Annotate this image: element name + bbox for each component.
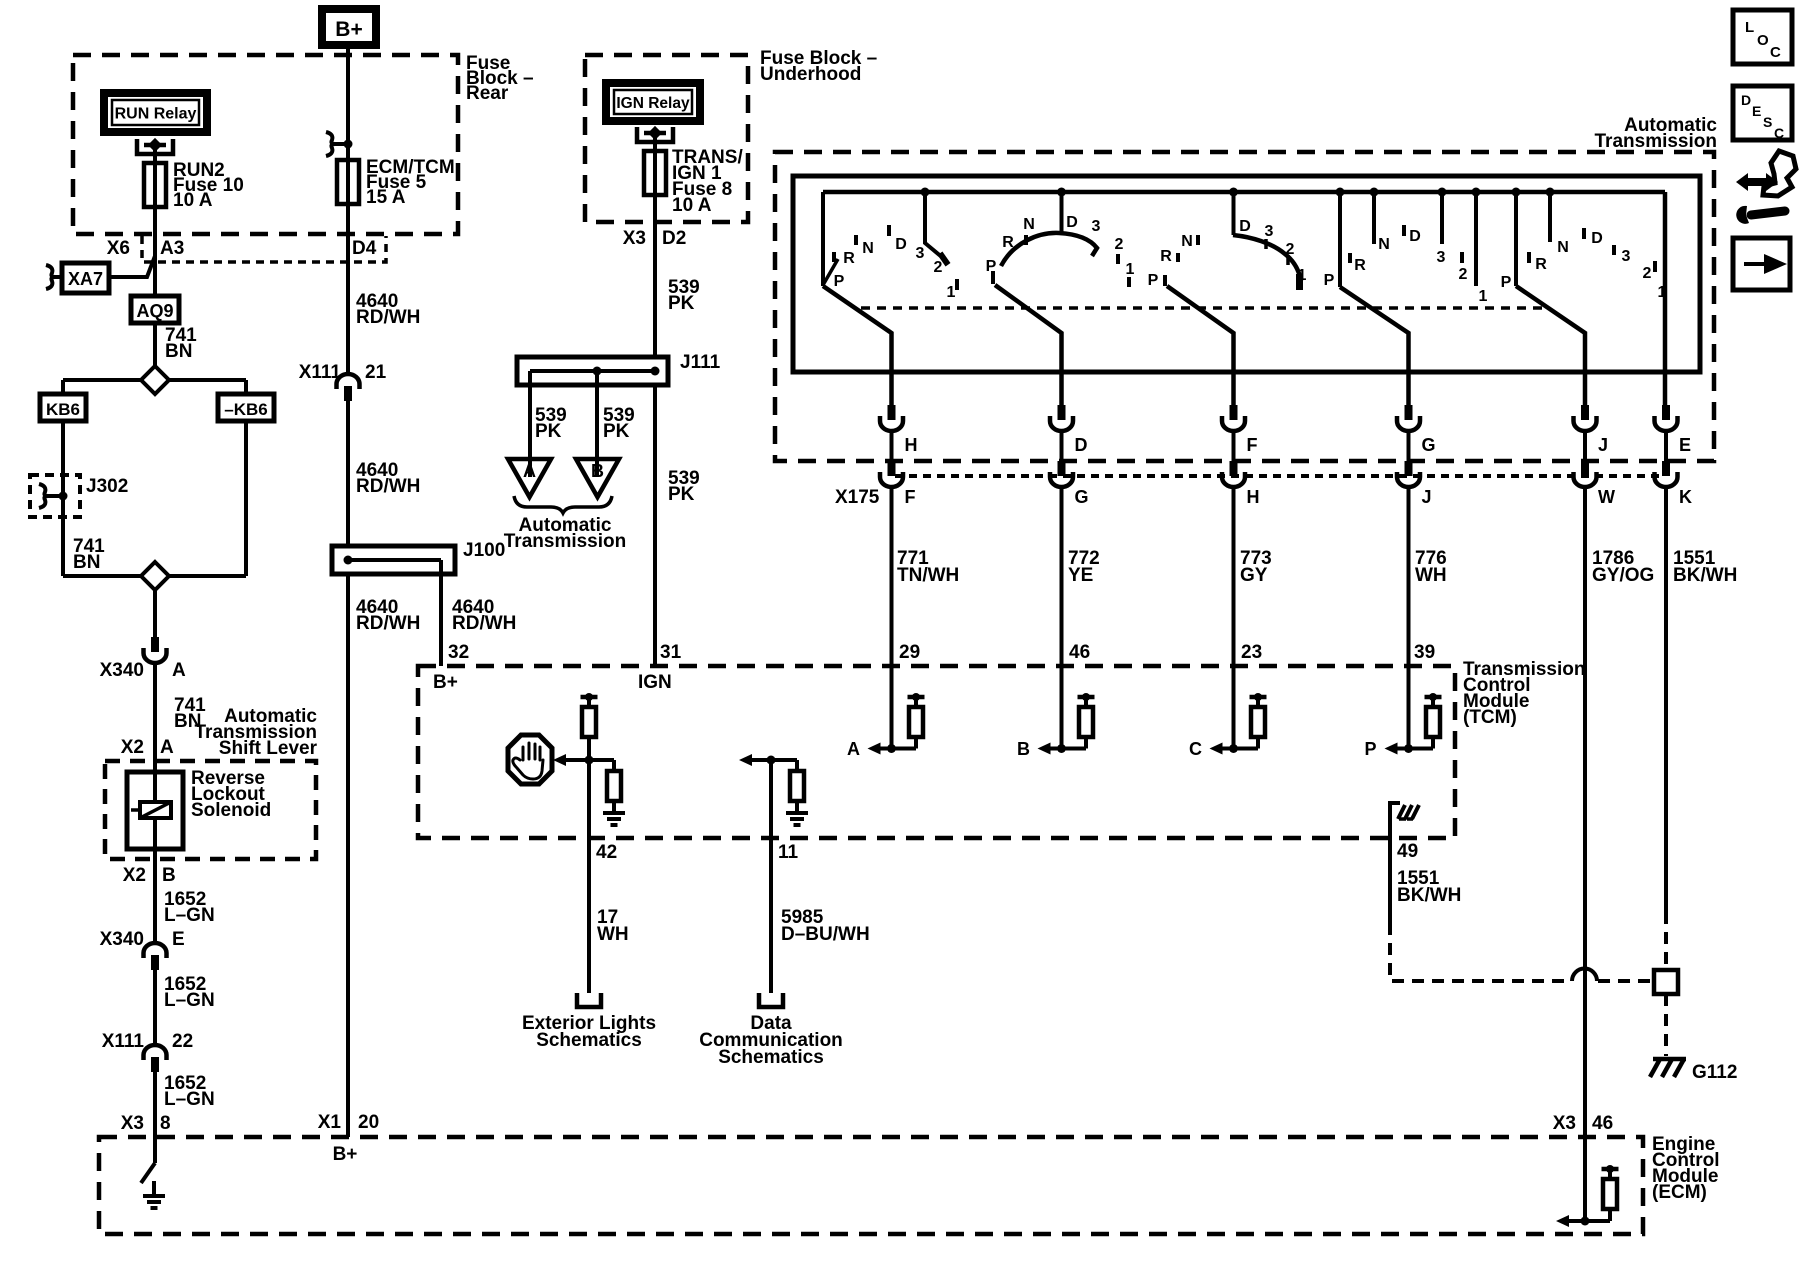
wire IGN relay to fuse — [653, 133, 657, 151]
svg-text:X111: X111 — [102, 1031, 145, 1052]
connector row X6 A3 D4 dashed box — [142, 236, 386, 262]
fuse ECM/TCM Fuse 5 15A — [337, 160, 359, 204]
label wire 4640 RD/WH second — [356, 460, 420, 497]
label X340 E — [100, 929, 185, 950]
svg-text:Shift Lever: Shift Lever — [219, 738, 318, 759]
inline connector clip XA7 — [46, 265, 55, 289]
svg-text:W: W — [1598, 487, 1615, 507]
inline connector square on 1551 — [1654, 970, 1678, 994]
resistor in TCM pin 42 — [582, 707, 596, 760]
svg-text:G112: G112 — [1692, 1062, 1737, 1083]
J100 internal bus — [344, 556, 442, 565]
svg-text:J: J — [1422, 487, 1432, 507]
switch group 2 position letters P R N D 3 2 1 — [986, 214, 1135, 287]
connector X175 pin G — [1050, 461, 1089, 507]
hidden wire 1551 from connector K — [1664, 912, 1668, 970]
svg-text:Underhood: Underhood — [760, 64, 861, 85]
inline clip J302 — [39, 484, 48, 508]
label Transmission Control Module TCM — [1463, 659, 1586, 728]
hidden wire 1551 to ground path — [1390, 923, 1654, 981]
label G112 — [1692, 1062, 1737, 1083]
svg-text:X6: X6 — [107, 238, 130, 259]
label X2 upper — [121, 737, 144, 758]
svg-text:32: 32 — [448, 642, 469, 663]
switch group 1 position letters P R N D 3 2 1 — [834, 225, 957, 301]
svg-text:3: 3 — [1437, 249, 1446, 266]
svg-text:H: H — [905, 435, 918, 455]
svg-text:X340: X340 — [100, 660, 144, 681]
switch group 2 wiper, feed and R-3 arc — [993, 188, 1097, 406]
wire KB6 down — [61, 421, 65, 576]
arrow data comm — [739, 754, 771, 766]
svg-text:3: 3 — [1265, 223, 1274, 240]
wire J100 branch to TCM pin 32 — [439, 560, 443, 666]
ECM internal switch to ground — [141, 1137, 165, 1208]
label X6 — [107, 238, 130, 259]
switch group 5 position letters P R N D 3 2 1 — [1501, 228, 1667, 301]
wire 1786 GY/OG — [1585, 489, 1654, 1137]
wire splice to KB6 branches — [63, 380, 246, 394]
svg-text:IGN Relay: IGN Relay — [616, 95, 690, 112]
svg-text:22: 22 — [172, 1031, 193, 1052]
label wire 1652 L-GN third — [164, 1073, 215, 1110]
svg-text:C: C — [1770, 44, 1781, 61]
brace under triangles — [514, 496, 612, 513]
svg-text:A: A — [523, 461, 536, 481]
connector X111 22 half-circle — [144, 1045, 167, 1072]
connector X340 E half-circle — [144, 943, 167, 970]
off-page triangle A — [508, 459, 551, 497]
svg-text:D2: D2 — [662, 228, 686, 249]
label X3 D2 — [623, 228, 687, 249]
connector X175 pin W — [1574, 461, 1616, 507]
off-page triangle B — [576, 459, 619, 497]
wire J111 branch B — [595, 371, 599, 477]
stop-hand octagon icon — [508, 735, 552, 784]
label Engine Control Module ECM — [1652, 1134, 1720, 1203]
wire splice to X340 A — [153, 590, 157, 638]
svg-text:F: F — [905, 487, 916, 507]
legend icon double-arrow with outline and wrench — [1736, 151, 1796, 224]
svg-text:Transmission: Transmission — [504, 531, 627, 552]
svg-text:XA7: XA7 — [68, 269, 103, 289]
svg-text:N: N — [1181, 233, 1193, 250]
transmission connector pin E — [1655, 405, 1692, 461]
ECM pullup bar pin 46 — [1602, 1165, 1619, 1179]
svg-text:1: 1 — [1126, 261, 1135, 278]
reverse lockout solenoid outer box — [127, 772, 183, 849]
wire J111 branch A — [528, 371, 532, 477]
resistor to ground in TCM 11 — [771, 760, 808, 825]
fuse block underhood dashed box — [585, 55, 748, 222]
svg-text:Transmission: Transmission — [1595, 131, 1718, 152]
label J100 — [463, 540, 505, 561]
svg-text:Schematics: Schematics — [718, 1047, 824, 1068]
svg-text:P: P — [986, 258, 997, 275]
ECM junction and arrow pin 46 — [1556, 1137, 1610, 1227]
svg-text:RD/WH: RD/WH — [356, 476, 420, 497]
arrow to stop-hand — [553, 754, 589, 766]
label pin 46 — [1069, 642, 1090, 663]
label Fuse Block - Rear — [466, 53, 534, 104]
wire through solenoid — [153, 772, 157, 849]
shift lever dashed box — [105, 761, 316, 859]
connector X175 pin H — [1222, 461, 1260, 507]
svg-text:J302: J302 — [86, 476, 128, 497]
svg-text:29: 29 — [899, 642, 920, 663]
svg-text:X340: X340 — [100, 929, 144, 950]
label pin 29 — [899, 642, 920, 663]
svg-text:42: 42 — [596, 842, 617, 863]
label wire 17 WH — [597, 907, 629, 945]
ECM resistor pin 46 — [1603, 1179, 1617, 1221]
transmission inner solid box — [793, 176, 1700, 372]
svg-text:D: D — [1591, 230, 1603, 247]
svg-text:KB6: KB6 — [46, 400, 80, 419]
label pin 49 — [1397, 841, 1418, 862]
svg-text:46: 46 — [1069, 642, 1090, 663]
legend box LOC — [1733, 10, 1792, 64]
relay IGN Relay box — [606, 83, 700, 121]
label J111 — [680, 352, 721, 373]
svg-text:BK/WH: BK/WH — [1673, 565, 1737, 586]
svg-text:8: 8 — [160, 1113, 171, 1134]
svg-text:PK: PK — [603, 421, 630, 442]
svg-text:2: 2 — [1115, 236, 1124, 253]
connector X111 21 half-circle — [337, 374, 360, 401]
legend box right-arrow — [1733, 238, 1790, 290]
svg-text:1: 1 — [1298, 267, 1307, 284]
automatic transmission dashed box — [775, 152, 1714, 461]
svg-text:P: P — [1324, 272, 1335, 289]
label Automatic Transmission Shift Lever — [195, 706, 318, 759]
switch group 3 position letters P R N D 3 2 1 — [1148, 218, 1307, 289]
J111 internal bus — [530, 367, 660, 376]
svg-text:R: R — [1002, 234, 1014, 251]
wire 776 WH — [1409, 489, 1447, 666]
svg-text:E: E — [172, 929, 185, 950]
svg-text:20: 20 — [358, 1112, 379, 1133]
splice diamond lower — [141, 562, 169, 590]
svg-text:Rear: Rear — [466, 83, 509, 104]
svg-text:R: R — [1535, 256, 1547, 273]
svg-text:R: R — [1160, 248, 1172, 265]
label pin 31 — [660, 642, 682, 663]
svg-text:(TCM): (TCM) — [1463, 707, 1517, 728]
svg-text:H: H — [1247, 487, 1260, 507]
fuse RUN2 Fuse 10 10A — [144, 163, 166, 207]
svg-text:G: G — [1075, 487, 1089, 507]
switch group 3 wiper, feed and D-1 arc — [1167, 188, 1303, 406]
svg-text:S: S — [1763, 114, 1772, 130]
svg-text:D: D — [1066, 214, 1078, 231]
svg-text:E: E — [1752, 103, 1761, 119]
svg-text:D: D — [1239, 218, 1251, 235]
transmission connector pin F — [1222, 405, 1258, 461]
svg-text:B: B — [591, 461, 604, 481]
svg-text:49: 49 — [1397, 841, 1418, 862]
wire TCM pin 11 down — [769, 760, 773, 993]
switch detent dotted line — [861, 306, 1544, 310]
svg-text:D: D — [1075, 435, 1088, 455]
label B+ at TCM — [433, 672, 458, 693]
switch group 4 position letters P R N D 3 2 1 — [1324, 225, 1488, 305]
label X111 22 — [102, 1031, 193, 1052]
svg-text:X2: X2 — [123, 865, 146, 886]
connector X175 dotted harness line — [895, 474, 1660, 478]
svg-text:D: D — [1741, 92, 1751, 108]
svg-text:X175: X175 — [835, 487, 880, 508]
svg-text:–KB6: –KB6 — [224, 400, 267, 419]
svg-text:AQ9: AQ9 — [136, 301, 173, 321]
ground G112 symbol — [1650, 1059, 1686, 1077]
svg-text:P: P — [1364, 739, 1376, 759]
svg-text:YE: YE — [1068, 565, 1093, 586]
svg-text:2: 2 — [1459, 266, 1468, 283]
splice diamond upper — [141, 366, 169, 394]
svg-text:21: 21 — [365, 362, 387, 383]
svg-text:L–GN: L–GN — [164, 905, 215, 926]
svg-text:A: A — [160, 737, 174, 758]
label wire 5985 D-BU/WH — [781, 907, 870, 945]
label ECM/TCM Fuse 5 15 A — [366, 157, 455, 208]
label pin B — [162, 865, 176, 886]
label X2 lower — [123, 865, 146, 886]
label wire 4640 RD/WH branch — [452, 597, 516, 634]
svg-text:J111: J111 — [680, 352, 721, 373]
wire solenoid to X2 B — [153, 849, 157, 880]
svg-text:31: 31 — [660, 642, 682, 663]
svg-text:RD/WH: RD/WH — [452, 613, 516, 634]
label pin 39 — [1414, 642, 1435, 663]
svg-text:2: 2 — [1643, 265, 1652, 282]
connector X175 pin F — [880, 461, 916, 507]
label wire 741 BN left — [73, 536, 105, 573]
off-page bracket exterior lights — [577, 993, 601, 1007]
wire X111 22 to ECM — [153, 1072, 157, 1137]
label Reverse Lockout Solenoid — [191, 768, 271, 821]
svg-text:A: A — [172, 660, 186, 681]
label Automatic Transmission destination — [504, 515, 627, 552]
TCM dashed box — [418, 666, 1455, 838]
switch group 4 wiper and feeds — [1336, 188, 1481, 406]
label IGN at TCM — [638, 672, 672, 693]
svg-text:X3: X3 — [1553, 1113, 1576, 1134]
svg-text:PK: PK — [668, 484, 695, 505]
label J302 — [86, 476, 128, 497]
ECM dashed box — [99, 1137, 1643, 1234]
svg-text:D4: D4 — [352, 238, 377, 259]
svg-text:Solenoid: Solenoid — [191, 800, 271, 821]
transmission connector pin G — [1397, 405, 1436, 461]
svg-text:J100: J100 — [463, 540, 505, 561]
svg-text:BK/WH: BK/WH — [1397, 885, 1461, 906]
svg-text:A3: A3 — [160, 238, 184, 259]
off-page bracket data comm — [759, 993, 783, 1007]
svg-text:X2: X2 — [121, 737, 144, 758]
svg-text:N: N — [1557, 239, 1569, 256]
connector X175 pin J — [1397, 461, 1432, 507]
TCM ground hook pin 49 — [1390, 803, 1419, 838]
label pin 11 — [778, 842, 799, 863]
wire TCM pin 49 down — [1388, 838, 1392, 923]
splice J302 dashed box — [30, 475, 80, 517]
svg-text:N: N — [1023, 216, 1035, 233]
label RUN2 Fuse 10 10 A — [173, 160, 244, 211]
connector X175 pin K — [1655, 461, 1693, 507]
label X175 — [835, 487, 880, 508]
label A3 — [160, 238, 184, 259]
svg-text:X1: X1 — [318, 1112, 342, 1133]
wire X340A to shift lever — [153, 665, 157, 772]
wire 773 GY — [1234, 489, 1272, 666]
svg-text:P: P — [1501, 274, 1512, 291]
power feed B+ box — [322, 9, 376, 45]
svg-text:D–BU/WH: D–BU/WH — [781, 924, 870, 945]
label Exterior Lights Schematics — [522, 1013, 656, 1051]
label wire 1652 L-GN second — [164, 974, 215, 1011]
label pin 32 — [448, 642, 469, 663]
legend box DESC — [1733, 86, 1792, 141]
svg-text:3: 3 — [916, 245, 925, 262]
label Fuse Block - Underhood — [760, 48, 877, 85]
label X111 21 — [299, 362, 387, 383]
wire AQ9 to splice — [153, 323, 157, 366]
connector X340 A half-circle — [144, 637, 167, 663]
connector AQ9 box — [131, 296, 179, 323]
hidden wire square to G112 — [1664, 994, 1668, 1056]
wire fuse8 down to J111 — [653, 195, 657, 357]
resistor to ground in TCM 42 — [589, 760, 625, 825]
label wire 4640 RD/WH first — [356, 291, 420, 328]
label wire 741 BN upper — [165, 325, 197, 362]
label X3 46 — [1553, 1113, 1613, 1134]
svg-text:1: 1 — [947, 284, 956, 301]
solenoid coil symbol — [131, 802, 171, 818]
inline clip at ECM/TCM fuse — [326, 132, 353, 156]
label wire 1652 L-GN first — [164, 889, 215, 926]
svg-text:D: D — [895, 236, 907, 253]
TCM input C with pull-up resistor — [1189, 666, 1267, 759]
svg-text:E: E — [1679, 435, 1691, 455]
svg-text:R: R — [1354, 257, 1366, 274]
TCM pullup bar for pin 42 — [581, 693, 598, 707]
wire RUN relay to fuse RUN2 — [153, 145, 157, 163]
label D4 — [352, 238, 377, 259]
option box KB6 — [40, 394, 86, 421]
svg-text:2: 2 — [1286, 241, 1295, 258]
svg-text:Schematics: Schematics — [536, 1030, 642, 1051]
svg-text:3: 3 — [1092, 218, 1101, 235]
switch group 5 wiper and feeds — [1512, 188, 1586, 406]
svg-text:C: C — [1774, 125, 1784, 141]
svg-text:IGN: IGN — [638, 672, 672, 693]
wire X111 21 to J100 — [346, 401, 350, 546]
svg-text:X3: X3 — [623, 228, 646, 249]
switch common bus — [823, 190, 1665, 195]
transmission connector pin H — [880, 405, 918, 461]
svg-text:PK: PK — [535, 421, 562, 442]
wire B+ box down — [346, 45, 350, 160]
wire J302 clip to wire — [48, 492, 68, 501]
wire TCM pin 42 down — [587, 760, 591, 993]
label pin 23 — [1241, 642, 1262, 663]
label X1 20 — [318, 1112, 379, 1133]
wire 772 YE — [1062, 489, 1100, 666]
label wire 539 PK lower — [668, 468, 700, 505]
label pin A — [172, 660, 186, 681]
svg-text:TN/WH: TN/WH — [897, 565, 959, 586]
svg-text:R: R — [843, 250, 855, 267]
wire -KB6 down — [244, 421, 248, 576]
IGN relay contact bracket — [637, 126, 673, 142]
svg-text:C: C — [1189, 739, 1202, 759]
splice pack J111 box — [517, 357, 668, 385]
svg-text:O: O — [1757, 32, 1769, 49]
svg-text:3: 3 — [1622, 248, 1631, 265]
svg-text:1: 1 — [1479, 288, 1488, 305]
wire 771 TN/WH — [892, 489, 960, 666]
TCM input B with pull-up resistor — [1017, 666, 1095, 759]
wire XA7 to main wire — [109, 256, 155, 277]
svg-text:GY/OG: GY/OG — [1592, 565, 1654, 586]
wire X340E to X111 22 — [153, 970, 157, 1043]
label wire 741 BN lower — [174, 695, 206, 732]
svg-text:WH: WH — [597, 924, 629, 945]
wire 1551 BK/WH upper — [1666, 489, 1737, 912]
label TRANS/IGN 1 Fuse 8 10 A — [672, 147, 743, 216]
svg-text:B+: B+ — [335, 18, 362, 41]
svg-text:N: N — [862, 240, 874, 257]
fuse block rear dashed box — [73, 55, 458, 234]
svg-text:46: 46 — [1592, 1113, 1613, 1134]
connector XA7 box — [62, 263, 109, 293]
TCM input P with pull-up resistor — [1364, 666, 1441, 759]
svg-text:GY: GY — [1240, 565, 1268, 586]
transmission connector pin J — [1574, 405, 1609, 461]
svg-text:A: A — [847, 739, 860, 759]
svg-text:P: P — [834, 273, 845, 290]
svg-text:BN: BN — [73, 552, 100, 573]
RUN relay contact bracket — [137, 138, 173, 154]
label pin 42 — [596, 842, 617, 863]
label Automatic Transmission — [1595, 115, 1718, 152]
wire to X340 E — [153, 880, 157, 941]
switch common feed to pin E — [1663, 192, 1668, 405]
svg-text:B+: B+ — [433, 672, 458, 693]
label B+ at ECM — [333, 1144, 358, 1165]
svg-text:10 A: 10 A — [672, 195, 712, 216]
svg-text:23: 23 — [1241, 642, 1262, 663]
wire join to splice lower — [63, 574, 246, 578]
svg-text:L: L — [1745, 19, 1754, 36]
svg-text:F: F — [1247, 435, 1258, 455]
wire fuse RUN2 down to AQ9 — [153, 207, 157, 296]
svg-text:WH: WH — [1415, 565, 1447, 586]
label wire 1551 BK/WH lower — [1397, 868, 1461, 906]
wire J111 to TCM pin 31 — [653, 385, 657, 666]
svg-text:X3: X3 — [121, 1113, 144, 1134]
fuse TRANS/IGN 1 Fuse 8 10A — [644, 151, 666, 195]
svg-text:15 A: 15 A — [366, 187, 406, 208]
junction dot pin 11 — [767, 756, 776, 765]
wire J100 to ECM B+ — [346, 574, 350, 1137]
wire clip to XA7 box — [55, 275, 62, 279]
svg-text:B: B — [162, 865, 176, 886]
switch group 1 wiper and feed — [823, 188, 950, 406]
svg-text:RD/WH: RD/WH — [356, 307, 420, 328]
transmission connector pin D — [1050, 405, 1088, 461]
